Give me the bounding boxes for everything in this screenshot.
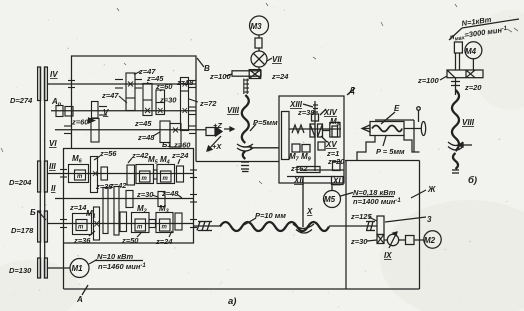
svg-text:m: m	[162, 225, 168, 231]
gear block z=60/z=30	[156, 90, 165, 115]
gear block z=47/z=47	[126, 73, 135, 111]
svg-text:z=48: z=48	[137, 133, 155, 142]
svg-text:XV: XV	[325, 140, 337, 149]
stray scan marks	[1, 3, 518, 184]
shaft XI horizontal	[300, 169, 344, 171]
column Zh top line	[345, 160, 420, 162]
motor M1 shaft	[48, 267, 71, 269]
shaft II	[55, 198, 194, 200]
nut on screw VIII	[237, 124, 279, 172]
svg-text:V: V	[103, 108, 109, 117]
frame bed A left edge and feed box	[64, 149, 194, 244]
gear on II left	[126, 191, 133, 208]
clutch M6	[69, 165, 89, 183]
gear on II right	[158, 192, 165, 207]
gear z=36 on B	[94, 207, 100, 240]
small gear z=1	[318, 142, 325, 150]
box D (differential)	[279, 88, 355, 185]
gear z=60 on VI	[91, 119, 99, 143]
svg-text:IV: IV	[50, 70, 58, 79]
feed gearbox interior	[38, 156, 197, 240]
svg-text:z=60: z=60	[155, 82, 173, 91]
svg-text:Б: Б	[30, 208, 36, 217]
svg-text:M5: M5	[324, 195, 336, 204]
shaft XII horizontal	[287, 176, 335, 178]
spline marks shaft V	[99, 106, 107, 108]
svg-text:II: II	[51, 184, 56, 193]
svg-text:z=14: z=14	[69, 203, 87, 212]
svg-text:VIII: VIII	[227, 106, 240, 115]
svg-text:z=72: z=72	[199, 99, 217, 108]
bearing shaft III left wall	[60, 169, 67, 171]
pulley D=204	[38, 161, 41, 192]
frame bed A bottom line	[64, 288, 420, 290]
shaft VI spindle	[55, 129, 206, 131]
svg-text:M3: M3	[251, 22, 263, 31]
svg-text:z=30: z=30	[350, 237, 368, 246]
clutch M8	[330, 123, 340, 138]
bearing shaft IV right wall	[189, 80, 196, 82]
pump IX and motor M2	[384, 231, 441, 248]
column Zh left edge	[345, 161, 347, 290]
svg-text:z=50: z=50	[121, 236, 139, 245]
gear left of M2	[120, 212, 127, 232]
coupling between M5 M4	[154, 170, 158, 179]
shaft B(I)	[48, 223, 194, 225]
sliding block B1 z=48	[160, 121, 170, 143]
svg-text:+X: +X	[212, 142, 222, 151]
svg-text:z=38: z=38	[297, 108, 315, 117]
leader z=50	[137, 233, 141, 237]
gear z=56 on III	[91, 157, 98, 193]
leader z=30	[152, 195, 158, 197]
svg-text:m: m	[78, 225, 84, 231]
vertical screw VIII left	[244, 80, 250, 92]
svg-text:Ж: Ж	[427, 185, 436, 194]
leader z=24 top	[178, 159, 180, 164]
label Zh	[411, 190, 426, 198]
worm wheel big in box D	[282, 112, 290, 160]
svg-text:z=30: z=30	[136, 190, 154, 199]
leader z=48 B1	[153, 132, 160, 136]
worm on horizontal shaft	[289, 128, 341, 130]
svg-text:D=204: D=204	[9, 178, 32, 187]
svg-text:z=62: z=62	[290, 164, 308, 173]
clutch m letters	[77, 174, 169, 231]
svg-text:z=30: z=30	[159, 96, 177, 105]
screw X horizontal	[220, 222, 329, 231]
clutch M7	[292, 144, 300, 152]
svg-text:z=56: z=56	[99, 149, 117, 158]
bevel gear right	[318, 124, 323, 137]
svg-text:z=24: z=24	[271, 72, 289, 81]
leader z=48	[178, 195, 182, 198]
bearing shaft IV left wall	[68, 80, 75, 82]
gear on V left	[92, 102, 99, 119]
leader XIV	[320, 109, 326, 115]
gearbox housing B outline	[72, 56, 197, 162]
bevel gear left	[310, 124, 315, 137]
leader XV	[321, 136, 327, 142]
leader z=24 bottom	[169, 231, 172, 237]
svg-text:z=100: z=100	[417, 76, 439, 85]
idler gear z=42	[114, 187, 119, 236]
svg-text:Б1: Б1	[162, 140, 171, 149]
leader z=36 bottom	[89, 231, 95, 236]
svg-text:VI: VI	[49, 139, 57, 148]
worm wheel z=100 top	[232, 71, 261, 76]
svg-text:XI: XI	[332, 177, 341, 186]
bearing shaft B right wall	[190, 219, 197, 221]
motor M5	[324, 183, 395, 208]
svg-text:z=20: z=20	[327, 157, 345, 166]
svg-text:P = 5мм: P = 5мм	[376, 147, 405, 156]
svg-text:z=60: z=60	[173, 141, 191, 150]
svg-text:E: E	[394, 104, 400, 113]
idler gear z=36	[103, 188, 108, 234]
vertical screw VIII right	[452, 90, 459, 169]
svg-text:A: A	[76, 295, 83, 304]
bearing shaft III right wall	[190, 169, 197, 171]
coupling between M2 M3	[149, 220, 156, 228]
motor M3 assembly	[226, 16, 272, 79]
XI label box	[332, 177, 344, 185]
svg-text:P=10 мм: P=10 мм	[255, 211, 286, 220]
svg-text:N=10 кВт: N=10 кВт	[97, 252, 133, 261]
svg-text:VII: VII	[272, 55, 283, 64]
table connecting line	[196, 161, 279, 163]
motor M4 top right	[440, 19, 519, 95]
bearing block at screw X left end	[198, 221, 212, 223]
clutch M3	[156, 213, 173, 233]
svg-text:z=18: z=18	[176, 78, 194, 87]
svg-text:VIII: VIII	[462, 118, 475, 127]
svg-text:z=45: z=45	[134, 119, 152, 128]
shaft IV	[48, 83, 197, 85]
svg-text:z=24: z=24	[171, 151, 189, 160]
pulley D=274	[38, 67, 41, 101]
svg-text:3: 3	[427, 215, 432, 224]
svg-text:z=100: z=100	[209, 72, 231, 81]
svg-text:m: m	[77, 174, 83, 180]
bearing shaft V right wall	[189, 106, 196, 108]
svg-text:N=0,18 кВт: N=0,18 кВт	[353, 188, 396, 197]
unit E	[357, 107, 426, 161]
svg-text:B: B	[204, 64, 210, 73]
bearing shaft B left wall	[60, 219, 67, 221]
pulley D=178	[38, 211, 41, 242]
svg-text:P=5мм: P=5мм	[253, 118, 278, 127]
bearing block on shaft Z	[366, 221, 375, 223]
gear block z=45	[143, 84, 152, 116]
speed gearbox interior	[56, 72, 198, 148]
svg-text:X: X	[306, 207, 313, 216]
gear z=62 plate	[297, 167, 320, 173]
clutch M5	[136, 165, 154, 184]
text labels left column	[9, 70, 109, 275]
svg-text:M4: M4	[465, 47, 477, 56]
svg-text:z=42: z=42	[131, 151, 149, 160]
belt	[39, 67, 41, 278]
svg-text:IX: IX	[384, 251, 392, 260]
gear block z=18/z=72	[181, 78, 189, 131]
pulley D=130	[38, 258, 41, 278]
svg-text:z=48: z=48	[161, 189, 179, 198]
svg-text:z=47: z=47	[101, 91, 119, 100]
gear z=24 right of M4	[177, 166, 184, 182]
leader z=56	[94, 156, 100, 160]
clutch M2	[132, 213, 150, 233]
bearing shaft VI left	[64, 125, 71, 127]
bearing shaft VI right wall	[189, 125, 196, 127]
gear right of M3	[175, 213, 182, 230]
sliding block B1 z=60	[170, 124, 181, 148]
gear z=42 left of M5	[127, 165, 135, 185]
small gear on III	[101, 167, 108, 180]
frame bed A left edge lower	[63, 243, 65, 289]
gear cross marks	[93, 82, 187, 227]
spline marks shaft IV	[115, 79, 123, 81]
svg-text:III: III	[49, 162, 56, 171]
pedestal of E	[357, 136, 375, 161]
svg-text:m: m	[142, 176, 148, 182]
svg-text:m: m	[137, 225, 143, 231]
motor M1	[70, 259, 143, 296]
stub shaft to M8	[323, 130, 331, 132]
leader z=42 top	[128, 158, 132, 163]
clutch M4	[157, 165, 175, 184]
svg-text:z=20: z=20	[464, 83, 482, 92]
leader z=60 arrow	[88, 120, 91, 122]
gear z=20	[333, 162, 341, 171]
tool arrow on spindle	[206, 127, 234, 152]
label B with leader	[197, 58, 204, 67]
svg-text:D=274: D=274	[10, 96, 33, 105]
svg-text:D=178: D=178	[11, 226, 34, 235]
svg-text:n=1400 мин-1: n=1400 мин-1	[353, 197, 401, 206]
leader XIII	[303, 104, 313, 107]
svg-text:z=24: z=24	[155, 237, 173, 246]
svg-text:XIV: XIV	[323, 108, 338, 117]
svg-text:M5 M4: M5 M4	[148, 155, 170, 166]
svg-text:а): а)	[228, 296, 236, 307]
svg-text:M1: M1	[72, 264, 84, 273]
clutch M1	[73, 214, 92, 235]
clutch M9	[302, 145, 310, 153]
gear z=125 block	[367, 216, 426, 244]
vertical shaft XIII	[314, 101, 316, 171]
leader B label	[38, 211, 46, 220]
svg-text:D=130: D=130	[9, 266, 32, 275]
column Zh right edge	[419, 161, 421, 290]
svg-text:z=42: z=42	[109, 181, 127, 190]
svg-text:Д: Д	[348, 86, 355, 95]
coupling Ap on V	[56, 106, 63, 117]
bearing shaft II right wall	[190, 194, 197, 196]
svg-text:z=125: z=125	[350, 212, 372, 221]
svg-text:n=1460 мин-1: n=1460 мин-1	[98, 262, 146, 271]
svg-text:z=36: z=36	[73, 236, 91, 245]
shaft V	[51, 110, 196, 112]
svg-text:б): б)	[468, 175, 477, 186]
svg-text:m: m	[163, 176, 169, 182]
svg-text:M2: M2	[424, 236, 436, 245]
shaft III	[48, 173, 194, 175]
svg-text:z=60: z=60	[71, 118, 89, 127]
spline shaft under worm wheel z=100	[244, 79, 247, 95]
svg-text:+Z: +Z	[213, 121, 222, 130]
gear z=38 top	[312, 114, 319, 121]
